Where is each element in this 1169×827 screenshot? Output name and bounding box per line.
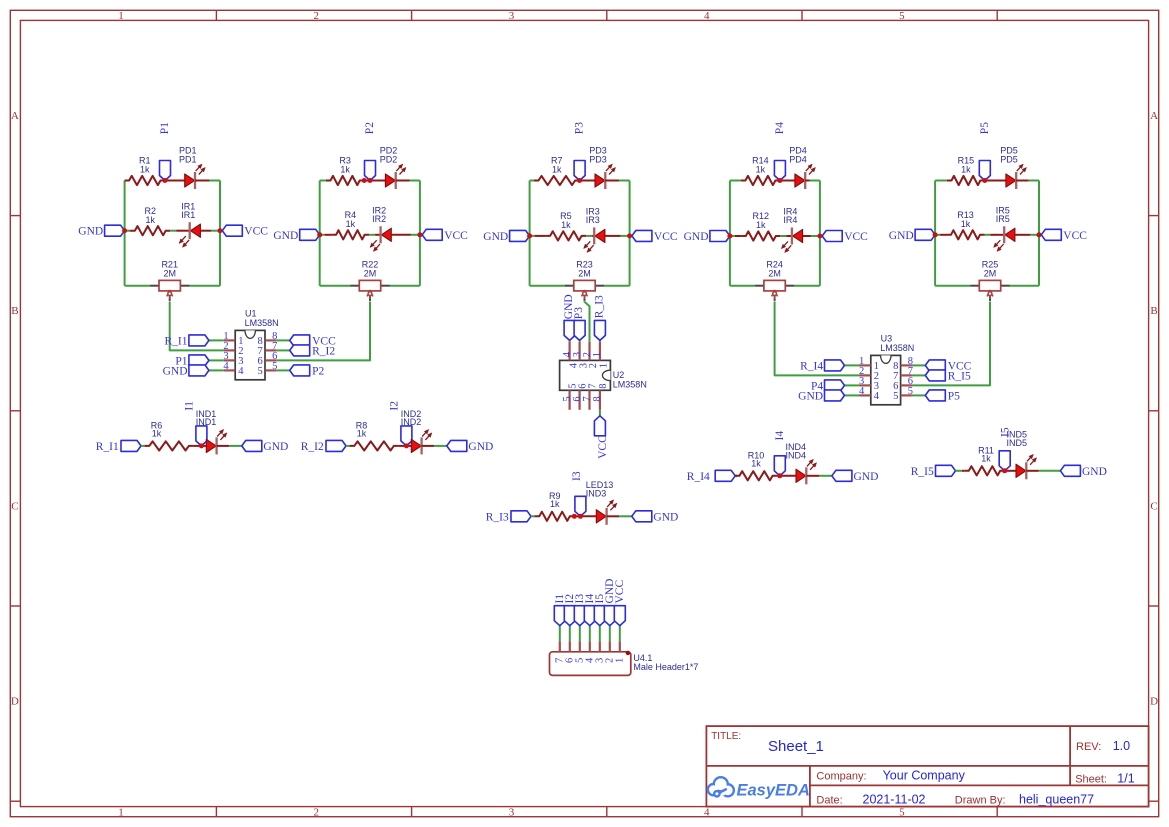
svg-text:GND: GND xyxy=(483,231,508,243)
svg-text:VCC: VCC xyxy=(244,226,268,238)
resistor R1 xyxy=(125,176,165,185)
net flag I3 xyxy=(574,594,586,626)
label IR3 xyxy=(586,207,600,225)
net flag I4 xyxy=(584,594,596,626)
svg-text:P3: P3 xyxy=(573,307,585,319)
junction xyxy=(163,178,168,183)
svg-text:R_I2: R_I2 xyxy=(312,345,335,357)
wire xyxy=(730,285,755,287)
svg-text:4: 4 xyxy=(704,10,710,22)
label R5 1k xyxy=(560,211,572,230)
resistor R9 xyxy=(535,512,575,521)
svg-text:4: 4 xyxy=(238,366,244,377)
net flag P4 xyxy=(774,122,786,181)
svg-text:R_I4: R_I4 xyxy=(687,471,710,483)
net flag I5 xyxy=(594,594,606,626)
port VCC xyxy=(290,335,336,348)
svg-text:IR5: IR5 xyxy=(996,214,1010,224)
LED IR5 xyxy=(991,226,1031,251)
net flag P5 xyxy=(979,122,991,181)
svg-text:3: 3 xyxy=(509,10,515,22)
svg-text:GND: GND xyxy=(78,226,103,238)
wire left vertical of block P2 xyxy=(319,181,321,286)
resistor R11 xyxy=(962,466,1005,475)
port R_I3 xyxy=(486,511,531,524)
wire xyxy=(599,340,601,341)
wire xyxy=(125,285,151,287)
wire xyxy=(735,475,737,477)
label IND5 IND5 xyxy=(1007,430,1028,448)
svg-text:2: 2 xyxy=(588,363,599,368)
connector U4.1 xyxy=(550,641,631,675)
net flag I3 xyxy=(571,471,586,516)
LED IR3 xyxy=(584,227,621,252)
label IR1 xyxy=(181,201,195,219)
wire xyxy=(621,235,630,237)
svg-text:I2: I2 xyxy=(388,401,400,411)
svg-text:GND: GND xyxy=(684,231,709,243)
svg-text:1k: 1k xyxy=(340,165,350,175)
wire xyxy=(369,234,375,236)
svg-text:1: 1 xyxy=(599,363,610,368)
wire xyxy=(211,230,220,232)
LED IND5 xyxy=(1005,454,1039,479)
svg-text:U2: U2 xyxy=(613,370,625,380)
label R9 1k xyxy=(549,491,561,509)
wire xyxy=(209,369,224,371)
port R_I4 xyxy=(687,470,735,483)
label R21 2M xyxy=(161,259,178,278)
junction xyxy=(627,233,632,238)
port R_I3 xyxy=(593,295,605,340)
svg-text:R_I1: R_I1 xyxy=(165,335,188,347)
label R14 1k xyxy=(752,156,769,175)
wire R21 wiper to U1 pin 2 xyxy=(170,302,224,351)
svg-text:Date:: Date: xyxy=(816,795,842,807)
svg-text:2M: 2M xyxy=(984,268,997,278)
wire xyxy=(912,374,925,376)
label IND1 IND1 xyxy=(196,409,217,427)
svg-text:Sheet_1: Sheet_1 xyxy=(768,738,824,755)
label IR2 xyxy=(372,206,386,224)
wire xyxy=(389,285,420,287)
port GND xyxy=(78,225,124,238)
resistor R8 xyxy=(350,441,407,450)
svg-text:R_I5: R_I5 xyxy=(911,466,934,478)
net flag P2 xyxy=(364,122,376,181)
port R_I5 xyxy=(925,370,971,383)
svg-text:2: 2 xyxy=(314,807,320,819)
svg-text:8: 8 xyxy=(592,396,603,401)
junction xyxy=(404,443,409,448)
label R15 1k xyxy=(958,156,975,175)
svg-text:3: 3 xyxy=(509,807,515,819)
wire xyxy=(346,445,350,447)
resistor R14 xyxy=(730,176,780,185)
port VCC xyxy=(1041,229,1087,242)
svg-text:IND1: IND1 xyxy=(196,417,217,427)
label R10 1k xyxy=(748,450,765,468)
wire xyxy=(364,180,370,182)
svg-text:PD2: PD2 xyxy=(380,154,398,164)
port GND xyxy=(632,511,679,524)
port VCC xyxy=(422,229,468,242)
junction xyxy=(122,228,127,233)
resistor R6 xyxy=(145,441,202,450)
svg-text:1k: 1k xyxy=(961,165,971,175)
svg-text:2: 2 xyxy=(582,352,593,357)
label R1 1k xyxy=(139,156,151,175)
svg-text:1.0: 1.0 xyxy=(1113,739,1130,753)
port VCC xyxy=(822,231,868,244)
svg-text:GND: GND xyxy=(889,230,914,242)
svg-text:5: 5 xyxy=(258,366,263,377)
svg-text:1: 1 xyxy=(615,658,626,663)
svg-text:VCC: VCC xyxy=(444,230,468,242)
svg-text:1k: 1k xyxy=(751,458,761,468)
net flag I2 xyxy=(564,594,576,626)
svg-text:1k: 1k xyxy=(357,428,367,438)
label R22 2M xyxy=(362,259,379,278)
wire xyxy=(845,364,860,366)
label LED13 IND3 xyxy=(586,480,614,499)
wire xyxy=(794,285,820,287)
svg-text:PD3: PD3 xyxy=(589,154,607,164)
wire xyxy=(569,626,571,642)
wire xyxy=(1039,470,1061,472)
svg-text:GND: GND xyxy=(854,471,879,483)
svg-text:LM358N: LM358N xyxy=(613,380,647,390)
LED IND2 xyxy=(406,430,434,455)
wire xyxy=(1029,180,1039,182)
svg-text:1k: 1k xyxy=(961,219,971,229)
port GND xyxy=(889,229,935,242)
label R11 1k xyxy=(978,445,994,463)
LED IND1 xyxy=(201,430,229,455)
resistor R7 xyxy=(530,176,580,185)
wire xyxy=(189,285,220,287)
svg-text:LM358N: LM358N xyxy=(245,318,279,328)
svg-text:4: 4 xyxy=(223,361,229,372)
junction xyxy=(362,178,367,183)
svg-text:1k: 1k xyxy=(756,165,766,175)
resistor R15 xyxy=(935,176,985,185)
svg-text:1/1: 1/1 xyxy=(1117,771,1134,785)
label IR5 xyxy=(996,206,1010,224)
label IR4 xyxy=(783,207,797,225)
port GND xyxy=(798,390,844,403)
LED PD5 xyxy=(985,164,1029,189)
port P3 xyxy=(573,307,585,341)
port VCC xyxy=(632,230,678,243)
resistor R12 xyxy=(730,231,780,240)
svg-text:R_I2: R_I2 xyxy=(301,441,324,453)
wire xyxy=(1009,285,1039,287)
svg-text:1k: 1k xyxy=(346,219,356,229)
op-amp U1 xyxy=(224,330,276,379)
wire xyxy=(845,394,860,396)
svg-text:2: 2 xyxy=(314,10,320,22)
svg-text:EasyEDA: EasyEDA xyxy=(737,781,810,799)
svg-text:R_I5: R_I5 xyxy=(948,370,971,382)
label R23 2M xyxy=(576,259,593,278)
svg-text:PD5: PD5 xyxy=(1000,154,1018,164)
port GND xyxy=(273,229,319,242)
EasyEDA logo xyxy=(708,777,810,799)
port GND xyxy=(163,365,209,378)
wire xyxy=(599,626,601,642)
wire xyxy=(579,340,581,341)
wire xyxy=(210,180,220,182)
svg-text:R_I1: R_I1 xyxy=(96,441,119,453)
port P1 xyxy=(175,355,209,368)
svg-text:1k: 1k xyxy=(140,165,150,175)
svg-text:GND: GND xyxy=(798,390,823,402)
wire xyxy=(569,340,571,341)
wire xyxy=(229,445,242,447)
LED LED13 xyxy=(580,500,619,525)
svg-text:IND2: IND2 xyxy=(401,417,422,427)
label IND4 IND4 xyxy=(786,442,807,460)
wire U3 pin 6 to R25 wiper xyxy=(912,302,990,386)
wire right vertical of block P1 xyxy=(219,181,221,286)
net flag GND xyxy=(604,579,616,626)
junction xyxy=(777,473,782,478)
wire xyxy=(559,626,561,642)
port P4 xyxy=(811,380,845,393)
svg-text:P5: P5 xyxy=(979,122,991,134)
svg-text:IR4: IR4 xyxy=(783,215,797,225)
wire xyxy=(609,626,611,642)
svg-text:B: B xyxy=(1150,305,1157,317)
svg-text:P3: P3 xyxy=(574,122,586,134)
label U3 LM358N xyxy=(880,333,914,353)
wire left vertical of block P3 xyxy=(529,181,531,286)
svg-text:IND4: IND4 xyxy=(786,450,807,460)
svg-text:C: C xyxy=(1150,500,1157,512)
svg-text:P2: P2 xyxy=(312,365,324,377)
wire left vertical of block P1 xyxy=(124,181,126,286)
label R6 1k xyxy=(151,420,163,438)
port R_I5 xyxy=(911,465,956,478)
svg-text:Company:: Company: xyxy=(816,771,866,783)
svg-text:P2: P2 xyxy=(364,122,376,134)
svg-text:R_I4: R_I4 xyxy=(800,360,823,372)
svg-text:Drawn By:: Drawn By: xyxy=(955,795,1006,807)
svg-text:VCC: VCC xyxy=(614,580,626,604)
svg-text:VCC: VCC xyxy=(1063,230,1087,242)
resistor R2 xyxy=(125,226,171,235)
wire xyxy=(586,235,592,237)
LED IR2 xyxy=(370,226,411,251)
wire xyxy=(141,445,145,447)
junction xyxy=(368,178,373,183)
wire xyxy=(276,369,289,371)
wire right vertical of block P3 xyxy=(629,181,631,286)
svg-text:A: A xyxy=(11,110,19,122)
svg-text:1k: 1k xyxy=(552,165,562,175)
svg-text:1: 1 xyxy=(118,10,124,22)
wire right vertical of block P5 xyxy=(1038,181,1040,286)
svg-text:I1: I1 xyxy=(183,401,195,411)
svg-text:1: 1 xyxy=(118,807,124,819)
resistor R25 xyxy=(971,280,1010,301)
svg-text:IR3: IR3 xyxy=(586,215,600,225)
wire right vertical of block P4 xyxy=(819,181,821,286)
svg-text:1: 1 xyxy=(592,352,603,357)
junction xyxy=(527,233,532,238)
label PD4 xyxy=(789,145,807,164)
svg-text:D: D xyxy=(1150,696,1158,708)
net flag P1 xyxy=(159,122,171,181)
net flag I1 xyxy=(183,401,207,446)
svg-text:IND5: IND5 xyxy=(1007,438,1028,448)
resistor R3 xyxy=(320,176,365,185)
port R_I2 xyxy=(290,345,336,358)
wire xyxy=(811,235,820,237)
wire xyxy=(209,339,224,341)
label PD5 xyxy=(1000,145,1018,164)
svg-text:VCC: VCC xyxy=(844,231,868,243)
junction xyxy=(578,514,583,519)
svg-text:Male Header1*7: Male Header1*7 xyxy=(633,662,698,672)
net flag I1 xyxy=(554,594,566,626)
svg-text:1k: 1k xyxy=(981,453,991,463)
svg-text:LM358N: LM358N xyxy=(880,343,914,353)
wire xyxy=(530,285,566,287)
junction xyxy=(1037,232,1042,237)
svg-text:8: 8 xyxy=(598,384,609,389)
wire xyxy=(434,445,447,447)
port R_I2 xyxy=(301,440,346,453)
wire xyxy=(619,515,632,517)
svg-text:5: 5 xyxy=(899,10,905,22)
svg-text:2M: 2M xyxy=(163,268,176,278)
svg-text:4: 4 xyxy=(859,386,865,397)
svg-text:7: 7 xyxy=(588,384,599,389)
svg-text:2M: 2M xyxy=(364,268,377,278)
svg-text:2M: 2M xyxy=(578,268,591,278)
junction xyxy=(777,178,782,183)
title block xyxy=(706,726,1148,807)
label PD3 xyxy=(589,145,607,164)
svg-text:U3: U3 xyxy=(881,333,893,343)
svg-text:B: B xyxy=(11,305,18,317)
port VCC xyxy=(222,225,268,238)
port GND xyxy=(684,231,730,244)
svg-text:I4: I4 xyxy=(774,431,786,441)
LED PD3 xyxy=(580,164,620,189)
svg-text:2021-11-02: 2021-11-02 xyxy=(863,792,926,806)
label R3 1k xyxy=(339,156,351,175)
wire xyxy=(780,235,786,237)
wire xyxy=(574,515,580,517)
label R24 2M xyxy=(766,259,783,278)
svg-text:TITLE:: TITLE: xyxy=(711,731,741,742)
port GND xyxy=(447,440,494,453)
svg-text:IR1: IR1 xyxy=(181,210,195,220)
svg-text:GND: GND xyxy=(273,230,298,242)
svg-text:1k: 1k xyxy=(561,220,571,230)
svg-text:P5: P5 xyxy=(948,390,960,402)
wire xyxy=(810,180,820,182)
net flag I5 xyxy=(999,427,1011,471)
pin numbers U4.1 xyxy=(555,657,626,663)
pin numbers U3 xyxy=(859,356,913,402)
junction xyxy=(577,178,582,183)
wire xyxy=(599,410,601,416)
wire U1 pin 6 to R22 wiper xyxy=(276,302,370,361)
svg-text:1k: 1k xyxy=(146,215,156,225)
svg-text:GND: GND xyxy=(263,441,288,453)
resistor R13 xyxy=(935,230,984,239)
label IND2 IND2 xyxy=(401,409,422,427)
LED IND4 xyxy=(780,459,820,484)
wire xyxy=(170,230,176,232)
LED PD1 xyxy=(165,164,210,189)
LED IR4 xyxy=(781,228,811,253)
svg-text:4: 4 xyxy=(704,807,710,819)
wire xyxy=(604,285,630,287)
pin numbers U1 xyxy=(223,331,277,377)
wire xyxy=(276,339,289,341)
junction xyxy=(933,232,938,237)
svg-text:VCC: VCC xyxy=(654,231,678,243)
wire xyxy=(209,359,224,361)
svg-text:I3: I3 xyxy=(571,471,583,481)
wire xyxy=(956,470,962,472)
wire left vertical of block P5 xyxy=(934,181,936,286)
junction xyxy=(417,232,422,237)
svg-text:A: A xyxy=(1150,110,1158,122)
wire xyxy=(912,394,925,396)
wire right vertical of block P2 xyxy=(419,181,421,286)
svg-text:VCC: VCC xyxy=(597,435,609,459)
resistor R5 xyxy=(530,231,587,240)
label U4.1 Male Header1*7 xyxy=(633,653,698,672)
label R7 1k xyxy=(551,156,563,175)
pin numbers U2 xyxy=(562,351,610,401)
svg-text:IND3: IND3 xyxy=(586,489,607,499)
svg-text:5: 5 xyxy=(899,807,905,819)
wire xyxy=(589,626,591,642)
label U1 LM358N xyxy=(245,308,279,328)
junction xyxy=(218,228,223,233)
svg-text:R_I3: R_I3 xyxy=(486,511,509,523)
junction xyxy=(572,514,577,519)
svg-text:GND: GND xyxy=(468,441,493,453)
svg-text:REV:: REV: xyxy=(1076,741,1101,753)
port R_I4 xyxy=(800,360,844,373)
wire xyxy=(619,626,621,642)
port GND xyxy=(1060,465,1107,478)
svg-text:5: 5 xyxy=(893,391,898,402)
svg-text:C: C xyxy=(11,500,18,512)
net flag I4 xyxy=(774,431,786,476)
svg-text:2M: 2M xyxy=(768,268,781,278)
wire xyxy=(985,234,991,236)
wire xyxy=(410,180,420,182)
wire xyxy=(276,349,289,351)
svg-text:7: 7 xyxy=(582,396,593,401)
svg-text:R_I3: R_I3 xyxy=(593,295,605,318)
wire xyxy=(531,515,535,517)
wire xyxy=(1030,234,1039,236)
port GND xyxy=(563,294,575,340)
svg-text:D: D xyxy=(11,696,19,708)
wire R23 wiper to U2 pin 2 xyxy=(585,301,590,341)
wire R24 wiper to U3 pin 2 xyxy=(775,302,860,376)
